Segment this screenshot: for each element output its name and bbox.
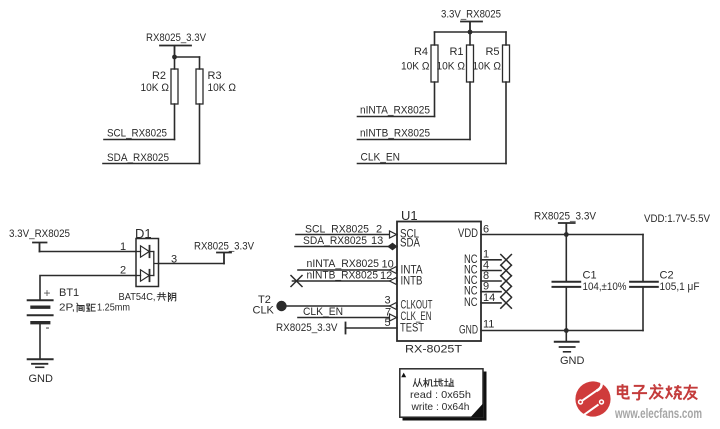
svg-text:GND: GND xyxy=(459,325,478,337)
power RX8025_3.3V (TEST pin) xyxy=(276,322,346,334)
watermark text 电子发烧友 xyxy=(618,384,698,399)
svg-text:R3: R3 xyxy=(208,70,222,82)
svg-text:CLKOUT: CLKOUT xyxy=(401,300,433,312)
svg-text:2P,: 2P, xyxy=(59,302,75,314)
pin 12 output arrow xyxy=(390,278,397,285)
resistor R1 xyxy=(437,32,474,140)
node T2 solder dot xyxy=(276,301,286,311)
svg-text:C2: C2 xyxy=(660,270,674,282)
node junction GND rail / C1 xyxy=(564,328,569,333)
wire CLK_EN to U1 pin 7 xyxy=(298,317,397,319)
no-connect X pin 1 xyxy=(501,255,512,266)
svg-text:NC: NC xyxy=(464,297,478,309)
svg-text:10K Ω: 10K Ω xyxy=(473,61,502,73)
wire junction to R3 top xyxy=(175,56,200,58)
node junction VDD rail / C1 xyxy=(564,232,569,237)
svg-text:read : 0x65h: read : 0x65h xyxy=(410,389,471,401)
wire T2 to U1 pin 3 xyxy=(287,305,398,307)
pin 10 output arrow xyxy=(390,267,397,274)
svg-text:TEST: TEST xyxy=(400,323,424,335)
svg-text:nINTA_RX8025: nINTA_RX8025 xyxy=(360,105,430,117)
note box body xyxy=(400,369,483,417)
svg-text:NC: NC xyxy=(464,286,478,298)
power 3.3V_RX8025 (top-right) xyxy=(441,9,501,33)
wire GND rail xyxy=(481,330,643,332)
svg-text:11: 11 xyxy=(483,319,494,331)
svg-text:SDA_RX8025: SDA_RX8025 xyxy=(303,235,367,247)
svg-text:INTB: INTB xyxy=(401,276,423,288)
svg-text:BT1: BT1 xyxy=(59,287,79,299)
svg-text:CLK_EN: CLK_EN xyxy=(361,152,401,164)
svg-text:RX-8025T: RX-8025T xyxy=(405,344,462,356)
node junction at power rail top-right xyxy=(468,30,473,35)
wire VDD rail xyxy=(481,234,643,236)
note box folded corner xyxy=(471,404,484,418)
resistor R5 xyxy=(473,32,510,164)
svg-text:CLK_EN: CLK_EN xyxy=(303,306,343,318)
svg-text:3: 3 xyxy=(385,295,391,307)
svg-text:CLK_EN: CLK_EN xyxy=(401,311,432,323)
svg-text:RX8025_3.3V: RX8025_3.3V xyxy=(276,322,338,334)
svg-text:10K Ω: 10K Ω xyxy=(208,82,237,94)
wire SDA to U1 pin 13 xyxy=(295,246,397,248)
svg-text:13: 13 xyxy=(371,235,383,247)
wire NC pin 14 xyxy=(481,302,501,304)
svg-text:GND: GND xyxy=(560,355,585,367)
svg-text:VDD:1.7V-5.5V: VDD:1.7V-5.5V xyxy=(644,213,711,225)
svg-text:RX8025_3.3V: RX8025_3.3V xyxy=(146,32,207,44)
svg-text:RX8025_3.3V: RX8025_3.3V xyxy=(534,211,597,223)
resistor R2 xyxy=(141,57,179,140)
wire NC pin 4 xyxy=(481,270,501,272)
wire power rail to R4/R1/R5 tops xyxy=(435,31,507,33)
ground (battery) xyxy=(28,359,53,385)
wire SCL_RX8025 to R2 xyxy=(104,139,175,141)
note text 从机地址 xyxy=(413,378,453,386)
IC U1 body xyxy=(397,222,481,342)
svg-text:nINTB_RX8025: nINTB_RX8025 xyxy=(360,128,430,140)
capacitor C2 xyxy=(630,235,700,331)
note box shadow xyxy=(403,372,487,421)
no-connect X pin 9 xyxy=(501,286,512,297)
svg-text:nINTA_RX8025: nINTA_RX8025 xyxy=(307,258,380,270)
svg-text:SCL_RX8025: SCL_RX8025 xyxy=(107,128,167,140)
svg-text:105,1 μF: 105,1 μF xyxy=(660,281,700,293)
power RX8025_3.3V (right of D1) xyxy=(194,241,255,264)
top diode of D1 xyxy=(136,251,141,253)
svg-text:R5: R5 xyxy=(485,46,499,58)
pin 7 input arrow xyxy=(390,314,397,321)
svg-text:-: - xyxy=(46,320,50,334)
wire NC pin 8 xyxy=(481,280,501,282)
wire D1 pin 3 to power xyxy=(159,263,225,265)
power RX8025_3.3V (top-left) xyxy=(146,32,207,57)
wire nINTB to U1 pin 12 xyxy=(293,280,398,282)
svg-text:VDD: VDD xyxy=(458,228,478,240)
svg-text:SDA_RX8025: SDA_RX8025 xyxy=(107,152,169,164)
pin 13 bidirectional arrow xyxy=(388,243,397,250)
wire CLK_EN to R5 xyxy=(358,163,507,165)
svg-text:GND: GND xyxy=(29,373,54,385)
svg-text:C1: C1 xyxy=(583,270,597,282)
svg-text:CLK: CLK xyxy=(253,305,275,317)
wire nINTA_RX8025 to R4 xyxy=(358,116,435,118)
svg-text:9: 9 xyxy=(483,281,489,293)
wire NC pin 9 xyxy=(481,291,501,293)
wire nINTA to U1 pin 10 xyxy=(298,269,397,271)
svg-text:+: + xyxy=(44,286,51,300)
svg-text:3.3V_RX8025: 3.3V_RX8025 xyxy=(9,228,70,240)
svg-text:SDA: SDA xyxy=(400,238,420,250)
svg-text:www.elecfans.com: www.elecfans.com xyxy=(614,406,702,421)
svg-text:nINTB_RX8025: nINTB_RX8025 xyxy=(307,270,379,282)
no-connect X on nINTB wire xyxy=(291,276,302,287)
resistor R3 xyxy=(196,57,236,164)
svg-text:1.25mm: 1.25mm xyxy=(97,302,130,314)
pin 3 output arrow xyxy=(390,303,397,310)
node T2 CLK labels xyxy=(253,294,275,317)
capacitor C1 xyxy=(553,235,627,331)
wire NC pin 1 xyxy=(481,259,501,261)
battery BT1 xyxy=(28,286,131,334)
IC U1 right pin names xyxy=(458,228,478,337)
power 3.3V_RX8025 (left) xyxy=(9,228,70,252)
svg-text:R4: R4 xyxy=(414,46,428,58)
watermark logo circle xyxy=(575,377,610,417)
svg-text:10K Ω: 10K Ω xyxy=(401,61,430,73)
svg-text:R1: R1 xyxy=(449,46,463,58)
svg-text:10K Ω: 10K Ω xyxy=(141,82,170,94)
power RX8025_3.3V (caps) xyxy=(534,211,597,235)
no-connect X pin 8 xyxy=(501,276,512,287)
no-connect X pin 4 xyxy=(501,265,512,276)
svg-text:R2: R2 xyxy=(152,70,166,82)
pin 2 input arrow xyxy=(390,231,397,238)
bottom diode of D1 xyxy=(136,275,141,277)
svg-text:104,±10%: 104,±10% xyxy=(583,281,627,293)
svg-text:write : 0x64h: write : 0x64h xyxy=(411,401,470,413)
no-connect X pin 14 xyxy=(501,298,512,309)
node junction at power rail top-left xyxy=(172,55,177,60)
common cathode join of D1 xyxy=(154,252,159,276)
wire nINTB_RX8025 to R1 xyxy=(358,139,471,141)
wire SDA_RX8025 to R3 xyxy=(103,163,200,165)
svg-text:RX8025_3.3V: RX8025_3.3V xyxy=(194,241,255,253)
wire power to D1 pin 1 xyxy=(40,251,137,253)
svg-text:3.3V_RX8025: 3.3V_RX8025 xyxy=(441,9,501,21)
wire SCL to U1 pin 2 xyxy=(296,234,397,236)
wire GND rail to ground symbol xyxy=(565,331,567,342)
wire battery to ground xyxy=(39,325,41,359)
wire D1 pin 2 to battery xyxy=(40,276,136,300)
ground (caps) xyxy=(555,342,585,367)
note box marker triangle xyxy=(401,373,406,378)
resistor R4 xyxy=(401,32,438,117)
IC U1 left pin names xyxy=(400,229,433,335)
svg-text:10K Ω: 10K Ω xyxy=(437,61,466,73)
diode D1 xyxy=(119,226,176,303)
wire TEST to U1 pin 5 xyxy=(346,327,398,329)
